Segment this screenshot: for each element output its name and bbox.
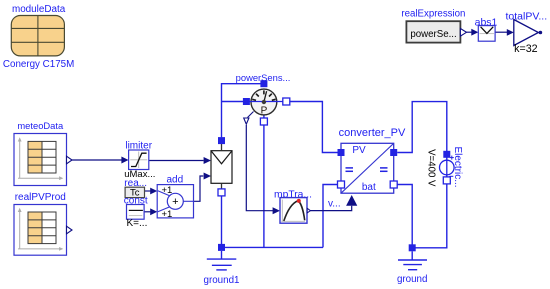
svg-text:converter_PV: converter_PV <box>339 127 406 139</box>
svg-text:V=400 V: V=400 V <box>426 149 437 187</box>
svg-text:k=32: k=32 <box>514 43 538 55</box>
svg-text:+1: +1 <box>161 185 172 196</box>
svg-text:powerSe...: powerSe... <box>410 29 456 40</box>
svg-text:+1: +1 <box>161 209 172 220</box>
svg-text:add: add <box>166 174 183 185</box>
svg-text:PV: PV <box>352 145 366 156</box>
svg-text:Conergy C175M: Conergy C175M <box>3 59 74 70</box>
svg-text:moduleData: moduleData <box>12 4 66 15</box>
svg-text:P: P <box>261 106 268 117</box>
svg-text:v...: v... <box>328 198 341 209</box>
svg-text:K=...: K=... <box>127 218 148 229</box>
svg-text:bat: bat <box>362 182 376 193</box>
svg-text:realExpression: realExpression <box>401 8 465 19</box>
svg-text:+: + <box>172 196 178 208</box>
svg-text:meteoData: meteoData <box>17 120 64 131</box>
svg-text:realPVProd: realPVProd <box>15 192 66 203</box>
svg-text:ground: ground <box>397 274 428 285</box>
svg-text:ground1: ground1 <box>204 275 240 286</box>
svg-text:totalPV...: totalPV... <box>505 11 547 23</box>
svg-text:Electric...: Electric... <box>452 146 463 187</box>
